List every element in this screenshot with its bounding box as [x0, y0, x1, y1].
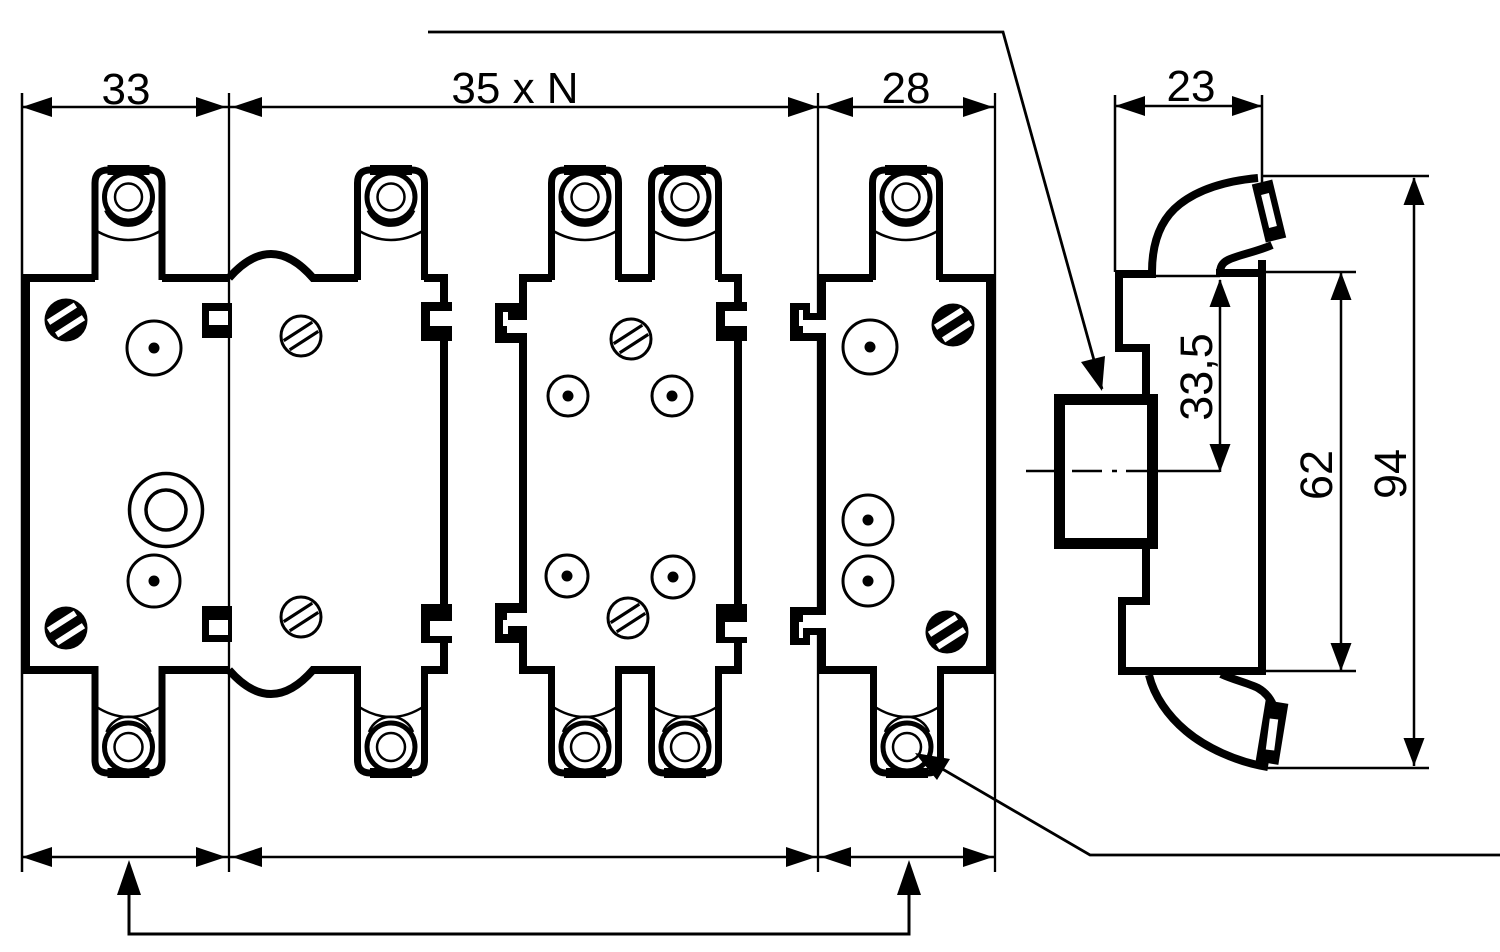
leader line bottom — [915, 753, 1500, 855]
extension line x1262 — [1261, 95, 1264, 183]
module A terminal top — [95, 170, 162, 280]
module C terminal bottom 2 — [652, 666, 719, 773]
module D screw bottom — [926, 611, 969, 654]
bracket arrow left — [117, 860, 141, 895]
top hook — [1152, 178, 1272, 274]
arrow bottom dim at x818 left — [821, 847, 851, 867]
thin ledge line under hook — [1156, 275, 1220, 278]
module D outline — [818, 274, 994, 674]
tab junction AB bottom — [202, 606, 232, 642]
arrow bottom dim left end — [22, 847, 52, 867]
arrow dim35xN left — [232, 97, 262, 117]
dim 94 — [1262, 176, 1429, 768]
tab C right bottom — [716, 604, 747, 643]
tab D left top — [790, 303, 826, 341]
module C terminal top 1 — [552, 170, 619, 280]
module A circle dot bottom — [128, 555, 180, 607]
tab D left bottom — [790, 607, 826, 645]
module B outline — [229, 254, 448, 694]
module C screw top — [611, 319, 651, 359]
extension line x22 — [21, 93, 24, 872]
module C circle dot 4 — [652, 556, 694, 598]
module B terminal top — [358, 170, 425, 280]
extension line x229 — [228, 93, 230, 872]
module C circle dot 1 — [548, 376, 588, 416]
arrow dim23 left — [1115, 96, 1145, 116]
leader bottom arrowhead — [915, 753, 950, 780]
arrow dim33 left — [22, 97, 52, 117]
dimension line bottom — [22, 856, 995, 859]
arrow bottom dim at x228 right — [196, 847, 226, 867]
module D circle dot low — [843, 556, 893, 606]
module D terminal top — [873, 170, 940, 280]
arrow dim28 right — [963, 97, 993, 117]
extension line x995 — [994, 93, 996, 872]
extension line x1115 — [1114, 95, 1117, 272]
svg-text:23: 23 — [1167, 62, 1216, 111]
module C terminal top 2 — [652, 170, 719, 280]
tab C right top — [716, 302, 747, 341]
bracket below — [129, 893, 909, 934]
arrow dim23 right — [1232, 96, 1262, 116]
extension line x818 — [817, 93, 819, 872]
svg-text:33: 33 — [102, 65, 151, 114]
module D screw top — [932, 304, 975, 347]
module A outline — [22, 274, 229, 674]
module D circle dot top — [843, 320, 897, 374]
tab C left top — [495, 303, 528, 343]
module C outline — [519, 274, 742, 674]
module A screw bottom — [45, 607, 88, 650]
arrow bottom dim right end — [963, 847, 993, 867]
module C screw bottom — [608, 598, 648, 638]
svg-text:94: 94 — [1365, 449, 1416, 499]
module D terminal bottom — [874, 666, 941, 773]
module D circle dot mid — [843, 495, 893, 545]
arrow dim33 right — [196, 97, 226, 117]
module C circle dot 2 — [652, 376, 692, 416]
svg-text:28: 28 — [882, 64, 931, 113]
bottom hook claw tip — [1267, 702, 1277, 763]
tab B right top — [421, 302, 452, 341]
svg-text:35 x N: 35 x N — [451, 64, 578, 113]
dim 33,5 — [1219, 280, 1222, 472]
side view DIN tab — [1060, 400, 1153, 544]
module A screw top — [45, 299, 88, 342]
svg-text:33,5: 33,5 — [1171, 333, 1222, 421]
arrow bottom dim at x228 left — [232, 847, 262, 867]
arrow dim33_5 up — [1210, 279, 1231, 307]
tab C left bottom — [495, 603, 528, 643]
module B screw bottom — [281, 597, 321, 637]
leader top arrowhead — [1081, 356, 1105, 391]
arrow dim28 left — [823, 97, 853, 117]
bottom hook — [1149, 674, 1273, 767]
module A circle dot top — [127, 321, 181, 375]
arrow dim94 down — [1404, 738, 1425, 766]
dimension line top — [22, 106, 1262, 107]
module B screw top — [281, 316, 321, 356]
side view body — [1118, 260, 1262, 675]
module A double circle — [130, 474, 203, 547]
centerline — [1026, 470, 1220, 473]
dim 62 — [1262, 272, 1356, 671]
tab junction AB top — [202, 303, 232, 338]
arrow dim62 up — [1331, 272, 1352, 300]
tab B right bottom — [421, 604, 452, 643]
module C terminal bottom 1 — [552, 666, 619, 773]
top hook claw tip — [1262, 182, 1276, 240]
module A terminal bottom — [95, 666, 162, 773]
arrow dim33_5 down — [1210, 444, 1231, 472]
arrow dim62 down — [1331, 643, 1352, 671]
arrow bottom dim at x818 right — [786, 847, 816, 867]
module B terminal bottom — [358, 666, 425, 773]
bracket arrow right — [897, 860, 921, 895]
arrow dim94 up — [1404, 177, 1425, 205]
arrow dim35xN right — [788, 97, 818, 117]
module C circle dot 3 — [546, 555, 588, 597]
leader line top — [428, 32, 1102, 389]
svg-text:62: 62 — [1291, 450, 1342, 500]
